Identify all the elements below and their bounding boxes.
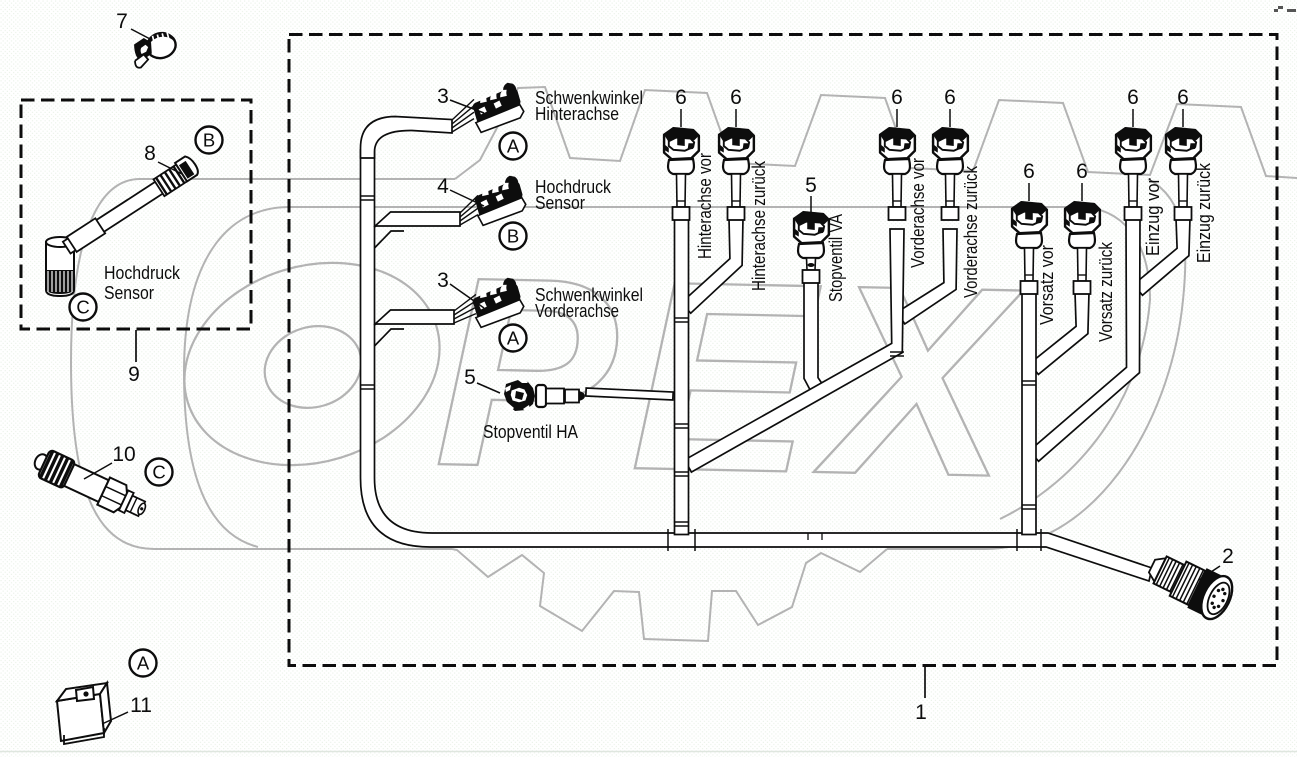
svg-text:4: 4 xyxy=(437,175,449,198)
svg-text:1: 1 xyxy=(915,701,927,724)
svg-text:Hochdruck: Hochdruck xyxy=(104,263,181,283)
svg-text:Hinterachse zurück: Hinterachse zurück xyxy=(749,160,769,291)
svg-text:Stopventil VA: Stopventil VA xyxy=(826,214,846,302)
svg-text:Stopventil HA: Stopventil HA xyxy=(483,422,578,442)
svg-text:A: A xyxy=(137,653,150,674)
svg-text:Vorderachse zurück: Vorderachse zurück xyxy=(961,165,981,298)
svg-text:6: 6 xyxy=(1127,86,1139,109)
svg-text:6: 6 xyxy=(891,86,903,109)
svg-text:2: 2 xyxy=(1222,545,1234,568)
svg-text:Sensor: Sensor xyxy=(104,283,154,303)
svg-text:6: 6 xyxy=(1023,160,1035,183)
svg-text:11: 11 xyxy=(130,694,152,717)
svg-text:Hinterachse: Hinterachse xyxy=(535,104,619,124)
svg-text:C: C xyxy=(152,462,165,483)
svg-text:10: 10 xyxy=(112,443,135,466)
svg-text:Vorderachse vor: Vorderachse vor xyxy=(908,158,928,268)
svg-text:Vorsatz vor: Vorsatz vor xyxy=(1037,245,1057,325)
svg-text:7: 7 xyxy=(116,10,128,33)
svg-text:A: A xyxy=(507,136,520,157)
svg-text:Vorderachse: Vorderachse xyxy=(535,301,619,321)
svg-text:Hinterachse vor: Hinterachse vor xyxy=(695,153,715,259)
svg-text:9: 9 xyxy=(128,363,140,386)
svg-text:Einzug vor: Einzug vor xyxy=(1143,178,1163,256)
svg-text:B: B xyxy=(203,130,215,151)
svg-text:B: B xyxy=(507,226,519,247)
svg-text:6: 6 xyxy=(1177,86,1189,109)
svg-text:3: 3 xyxy=(437,85,449,108)
svg-text:Einzug zurück: Einzug zurück xyxy=(1194,162,1214,263)
svg-text:5: 5 xyxy=(464,366,476,389)
svg-text:3: 3 xyxy=(437,269,449,292)
svg-text:Sensor: Sensor xyxy=(535,193,585,213)
svg-text:6: 6 xyxy=(1076,160,1088,183)
svg-text:6: 6 xyxy=(944,86,956,109)
svg-text:8: 8 xyxy=(144,142,156,165)
svg-text:Vorsatz zurück: Vorsatz zurück xyxy=(1096,241,1116,342)
svg-text:A: A xyxy=(507,328,520,349)
svg-text:C: C xyxy=(76,297,89,318)
svg-text:5: 5 xyxy=(805,174,817,197)
svg-text:6: 6 xyxy=(730,86,742,109)
svg-text:6: 6 xyxy=(675,86,687,109)
